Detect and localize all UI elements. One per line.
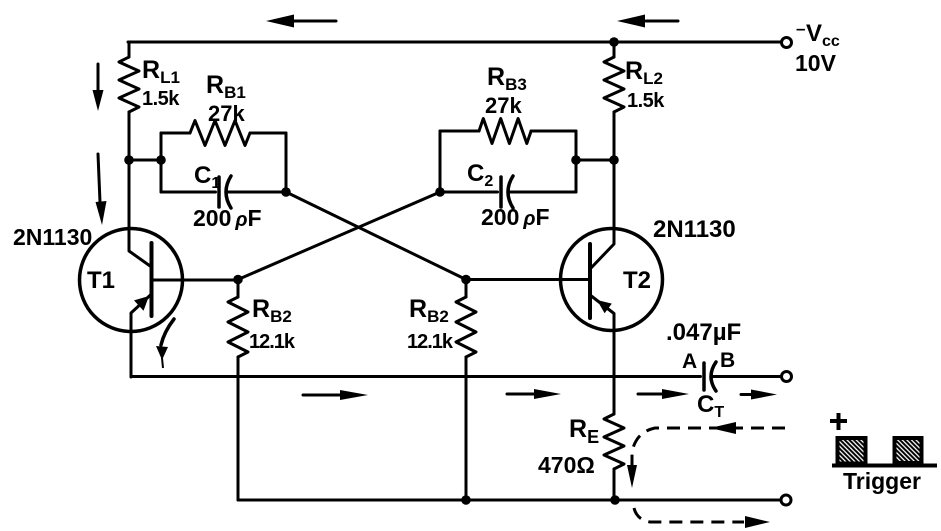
wire RB2 right bottom to lower rail [465, 357, 468, 500]
svg-text:B: B [720, 349, 735, 372]
svg-text:12.1k: 12.1k [407, 331, 454, 353]
wire RB1 top lead left [161, 132, 190, 135]
svg-text:2N1130: 2N1130 [13, 224, 92, 250]
arrow current right of RB2 shaft [507, 393, 536, 396]
svg-text:T2: T2 [623, 267, 651, 294]
arrow current top rail left shaft [292, 20, 336, 23]
wire dashed trigger feed upper [632, 428, 785, 468]
arrowhead top rail left [266, 15, 294, 28]
node T2 base junction [461, 275, 471, 285]
arrowhead left of CT [662, 389, 689, 399]
wire rail to RL2 [613, 42, 616, 57]
capacitor C1 right plate [226, 176, 231, 208]
arrowhead left upper [93, 90, 104, 111]
wire T2 base lead [466, 278, 590, 281]
wire top supply rail [128, 41, 781, 44]
resistor RB1 [190, 121, 250, 146]
svg-text:200ρF: 200ρF [193, 205, 262, 231]
arrowhead curved emitter arrow [156, 346, 168, 360]
wire bottom rail [238, 499, 781, 502]
transistor T2 base bar [588, 244, 592, 318]
wire RB3 top lead left [440, 130, 479, 133]
wire emitter output line [131, 375, 701, 378]
arrowhead trigger path right [745, 516, 770, 528]
resistor RL1 [119, 57, 139, 112]
node T1 collector junction [124, 155, 134, 165]
node RL2 mid junction [609, 155, 619, 165]
resistor RE [604, 414, 624, 469]
svg-text:1.5k: 1.5k [142, 88, 180, 110]
wire T1 base lead [152, 279, 239, 282]
svg-text:470Ω: 470Ω [538, 452, 595, 478]
wire link C2 box to RL2 [576, 159, 614, 162]
transistor T1 base bar [150, 243, 154, 316]
svg-text:2N1130: 2N1130 [653, 216, 736, 243]
capacitor CT right plate [711, 362, 716, 391]
arrow current mid lower shaft [303, 394, 342, 397]
svg-text:A: A [682, 350, 697, 373]
svg-text:1.5k: 1.5k [627, 90, 665, 112]
wire dashed trigger feed lower [634, 508, 744, 522]
transistor T2 circle [561, 229, 663, 331]
node C2 left junction [435, 187, 445, 197]
wire RL2 bottom to T2 collector [591, 112, 614, 268]
arrowhead right of CT [751, 390, 777, 400]
terminal output B [782, 372, 792, 382]
resistor RL2 [604, 57, 624, 112]
wire C2 right lead [508, 191, 576, 194]
arrowhead T2 emitter (PNP) [597, 300, 612, 313]
terminal bottom [781, 495, 791, 505]
node top rail RL2 junction [609, 37, 619, 47]
svg-text:27k: 27k [208, 101, 245, 126]
transistor T2 emitter [590, 295, 614, 414]
wire RB1/C1 box left side [160, 133, 163, 192]
wire RL1 bottom to T1 collector node [128, 112, 131, 160]
wire C1 left lead [161, 191, 216, 194]
wire RB1 top lead right [250, 132, 286, 135]
arrowhead left lower [96, 201, 107, 225]
node RE bottom junction [610, 495, 620, 505]
resistor RB2 left [228, 297, 248, 357]
resistor RB2 left top lead [237, 280, 240, 298]
wire CT to output terminal [711, 375, 781, 378]
svg-text:27k: 27k [485, 93, 522, 118]
wire RB2 left bottom to lower rail [237, 357, 240, 500]
arrow current left of CT shaft [638, 393, 664, 396]
arrow curved T1 emitter current [161, 319, 174, 345]
arrow current left upper shaft [97, 64, 100, 92]
arrowhead trigger path left [710, 422, 736, 434]
wire RB3 top lead right [531, 130, 576, 133]
arrowhead right of RB2 [534, 389, 561, 399]
wire cross-couple diagonal C1 to T2 base node [286, 192, 466, 280]
wire RB3/C2 box left side [439, 131, 442, 192]
node T1 base junction [233, 275, 243, 285]
wire RE bottom lead [613, 469, 616, 500]
wire C1 right lead [226, 191, 286, 194]
resistor RB3 [479, 119, 531, 144]
arrow current right of CT shaft [741, 393, 754, 396]
node C1 output junction [281, 187, 291, 197]
svg-text:Trigger: Trigger [843, 468, 921, 494]
transistor T1 emitter [131, 294, 152, 377]
terminal -Vcc [782, 38, 792, 48]
node RB1 box left junction [156, 155, 166, 165]
arrowhead mid lower [340, 390, 368, 400]
node C2 box right junction [571, 155, 581, 165]
node RB2 right bottom junction [461, 495, 471, 505]
svg-text:T1: T1 [87, 267, 115, 294]
transistor T1 circle [80, 229, 183, 332]
svg-text:200ρF: 200ρF [481, 204, 550, 230]
svg-text:12.1k: 12.1k [249, 331, 296, 353]
arrowhead stub curved arrow [162, 358, 163, 368]
wire node to T1 collector entry [129, 160, 152, 267]
wire cross-couple diagonal C2 to T1 base node [238, 192, 440, 280]
wire link node to RB1 box [129, 159, 161, 162]
wire RB3/C2 box right side [575, 131, 578, 192]
capacitor C2 left plate [499, 177, 503, 207]
arrowhead top rail right [617, 15, 645, 28]
trigger plus sign [830, 413, 847, 430]
wire left vertical from rail to RL1 [128, 42, 131, 57]
trigger pulse square 1 [838, 438, 866, 464]
svg-text:10V: 10V [795, 50, 837, 76]
arrowhead T1 emitter (PNP) [134, 296, 149, 311]
trigger pulse square 2 [895, 438, 922, 463]
capacitor C1 left plate [217, 177, 221, 207]
arrowhead trigger path down [627, 465, 637, 488]
arrow current left lower shaft [98, 154, 100, 202]
trigger pulse baseline [832, 464, 937, 468]
resistor RB2 right [456, 297, 476, 357]
capacitor CT left plate [702, 363, 706, 390]
svg-text:.047µF: .047µF [666, 319, 741, 346]
wire RB1/C1 box right side [285, 133, 288, 192]
arrow current top rail right shaft [646, 20, 678, 23]
resistor RB2 right top lead [465, 280, 468, 298]
wire C2 left lead [440, 191, 498, 194]
svg-text:–: – [796, 19, 805, 38]
capacitor C2 right plate [508, 176, 513, 208]
